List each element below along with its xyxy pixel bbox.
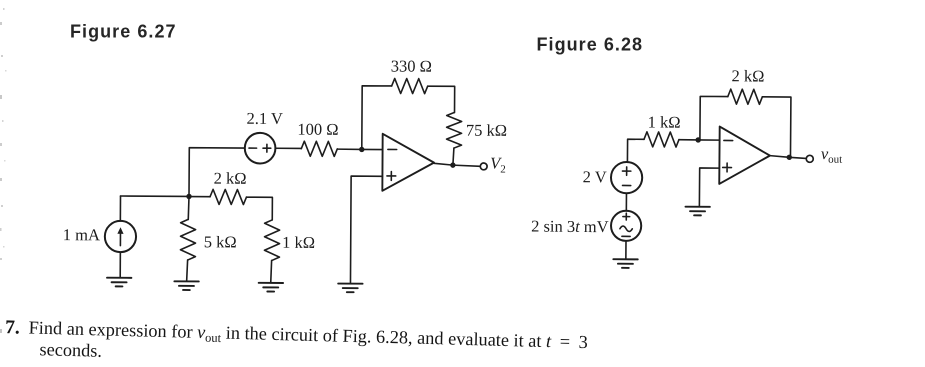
svg-text:2.1 V: 2.1 V [246,109,283,128]
svg-text:330 Ω: 330 Ω [391,56,432,75]
svg-text:seconds.: seconds. [39,339,102,361]
svg-text:2 kΩ: 2 kΩ [214,169,247,188]
svg-text:1 mA: 1 mA [63,225,100,244]
svg-text:Figure 6.27: Figure 6.27 [70,22,177,42]
svg-text:100 Ω: 100 Ω [297,120,338,139]
svg-text:2 V: 2 V [583,167,607,186]
svg-text:2 sin 3t mV: 2 sin 3t mV [531,217,609,237]
svg-text:1 kΩ: 1 kΩ [648,112,681,131]
svg-text:Find an expression for vout in: Find an expression for vout in the circu… [28,318,588,355]
svg-text:7.: 7. [5,317,20,338]
svg-text:vout: vout [821,144,843,166]
svg-text:V2: V2 [490,153,506,175]
svg-text:1 kΩ: 1 kΩ [282,233,315,252]
svg-text:75 kΩ: 75 kΩ [466,121,507,140]
svg-text:Figure 6.28: Figure 6.28 [537,35,644,55]
svg-text:5 kΩ: 5 kΩ [204,232,237,251]
svg-text:2 kΩ: 2 kΩ [731,66,764,85]
